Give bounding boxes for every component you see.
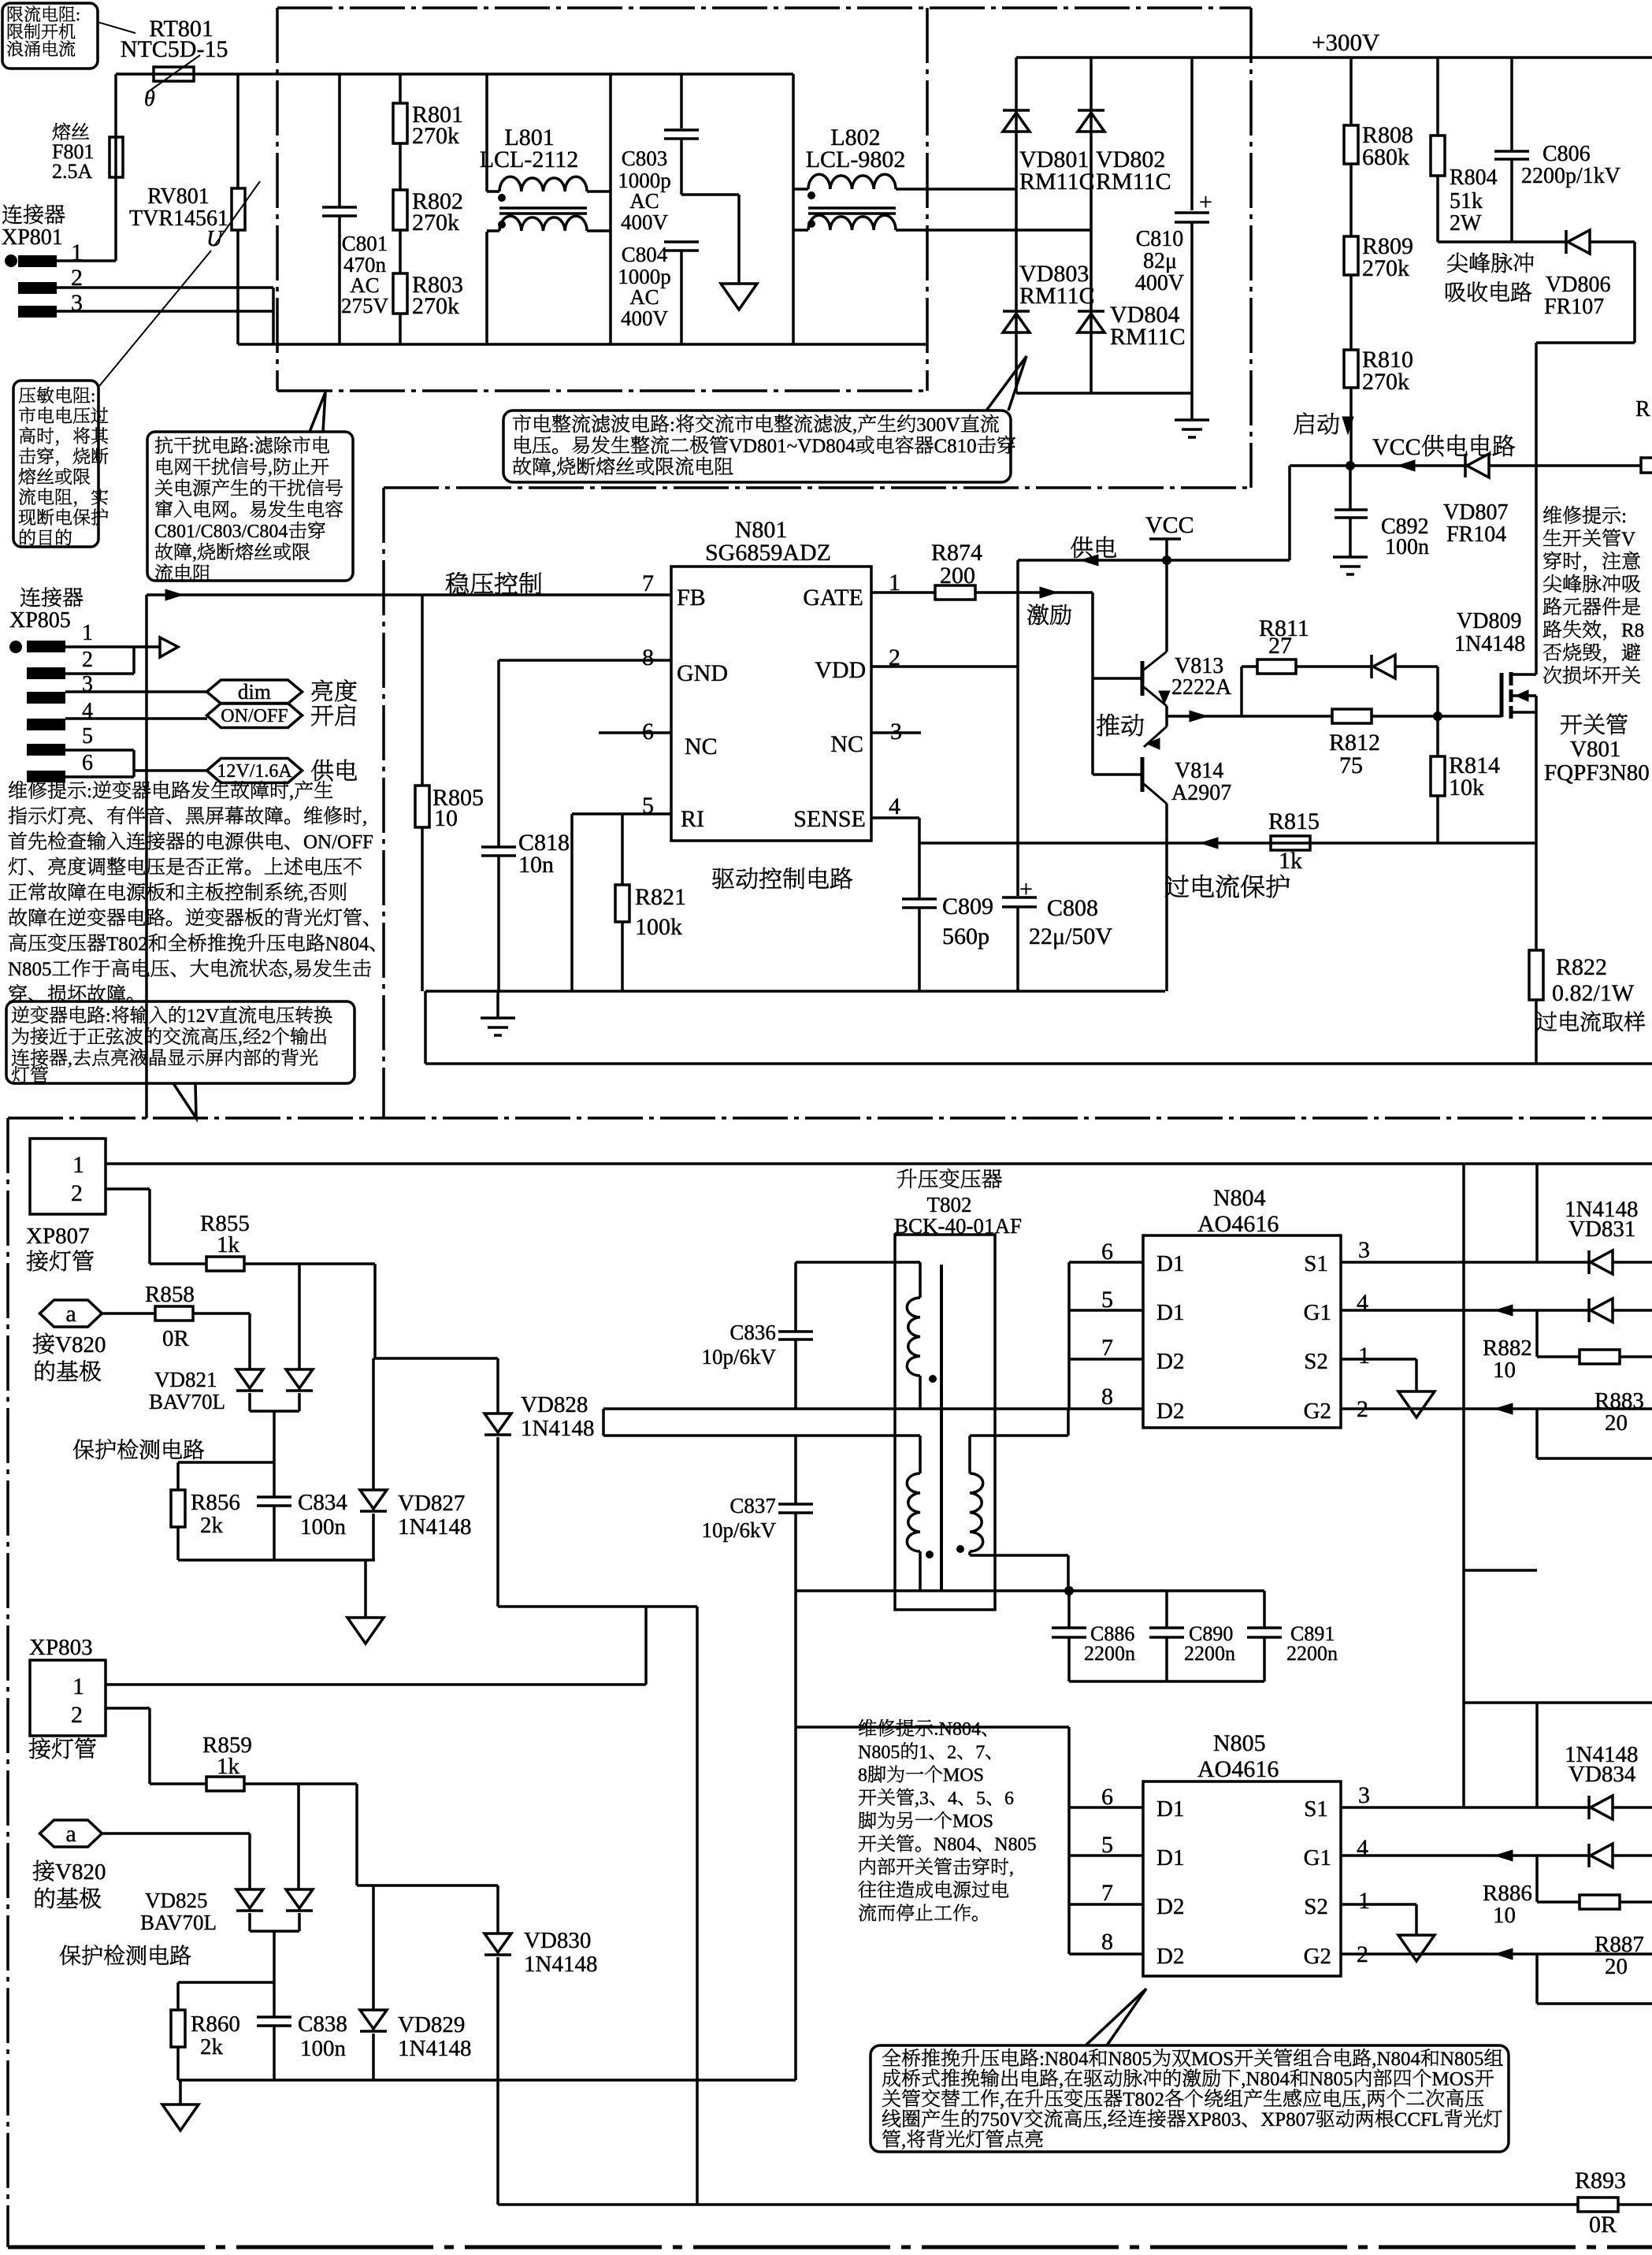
svg-text:10: 10 [434,805,458,831]
svg-text:R815: R815 [1268,808,1320,834]
svg-text:1: 1 [1358,1343,1370,1369]
svg-text:N804: N804 [1213,1185,1266,1211]
node L801 dot top [498,194,506,202]
svg-text:,: , [192,543,197,563]
svg-text:R893: R893 [1575,2168,1626,2194]
node L802 dot top [807,191,815,199]
label 保护检测电路 upper [73,1440,94,1459]
svg-text:0.82/1W: 0.82/1W [1552,980,1635,1006]
label 过电流保护 [1165,875,1189,897]
svg-text:100n: 100n [300,1514,347,1540]
svg-text:1N4148: 1N4148 [1454,632,1525,656]
wire pin3 [65,690,207,693]
svg-text:VD829: VD829 [398,2012,465,2038]
ground (triangle) S2 [1398,1391,1435,1417]
svg-text:S2: S2 [1304,1894,1328,1919]
wire VCC supply to IC [1018,559,1290,562]
svg-text:2.5A: 2.5A [52,160,93,183]
svg-text:R821: R821 [635,884,686,910]
svg-text:10: 10 [1493,1358,1516,1383]
svg-text::: : [670,414,675,436]
wire R860/C838 top [178,1981,274,1984]
node VCC dot [1162,555,1171,565]
wire section border EMI right (dash-dot) [926,8,929,391]
svg-text:G1: G1 [1304,1300,1331,1325]
wire section border mid horizontal (dash-dot) [384,486,1251,489]
op-amp N804 AO4616 box [1143,1235,1341,1428]
svg-text:AO4616: AO4616 [1197,1756,1279,1782]
svg-text:0R: 0R [162,1326,190,1351]
svg-text:D2: D2 [1156,1349,1184,1374]
svg-text:3: 3 [1358,1782,1370,1808]
wire G2 line n805 [1341,1952,1652,1956]
svg-text:VD834: VD834 [1568,1762,1636,1787]
connector XP807 box [30,1139,106,1214]
wire XP807 pin1 line [106,1162,1652,1165]
flag 12V/1.6A [207,759,303,783]
svg-text::: : [106,1006,111,1027]
resistor R802 [399,143,402,190]
diode VD834b [1587,1844,1591,1867]
wire XP801 pin1 [57,259,116,262]
svg-text:V814: V814 [1175,759,1223,783]
resistor R860 [176,1982,180,2010]
svg-text:20: 20 [1605,1410,1628,1436]
svg-text:D2: D2 [1156,1399,1184,1424]
svg-text:1: 1 [82,621,93,645]
svg-text:,: , [289,781,294,802]
connector XP805 pin2 [27,667,65,679]
svg-text:5: 5 [976,1789,986,1809]
note text: repair tip left [9,781,27,799]
svg-text:XP801: XP801 [2,225,63,250]
label T802 [897,1169,917,1188]
ground (earth) C892 [1333,555,1368,559]
svg-text:10: 10 [1493,1903,1516,1928]
svg-text:RM11C: RM11C [1110,324,1186,350]
wire VDD to VCC [1016,560,1019,896]
diode VD834a [1587,1796,1591,1819]
wire section border right (dash-dot) [1249,8,1253,488]
svg-text:VD825: VD825 [145,1889,208,1912]
svg-text:27: 27 [1268,633,1292,659]
wire pins1-2 merge [65,645,160,648]
svg-text:NTC5D-15: NTC5D-15 [121,36,228,62]
svg-text:4: 4 [1357,1290,1368,1316]
svg-text::N804: :N804 [1039,2049,1089,2070]
wire secondary top link [970,1434,1068,1437]
node L802 dot bottom [807,220,815,228]
diode VD809 [1370,655,1373,678]
svg-text:1k: 1k [217,1754,240,1779]
svg-text:,: , [1000,2089,1004,2110]
wire XP801 pin2 [57,286,273,289]
wire VD827 chain [373,1357,498,1360]
svg-text:1N4148: 1N4148 [521,1416,594,1441]
svg-text:C803: C803 [622,147,668,170]
wire VD828 down [496,1437,499,1607]
flag a (lower) [40,1820,102,1847]
svg-text:2: 2 [82,648,93,672]
wire VD829 to rail [372,2034,375,2080]
svg-text:VD806: VD806 [1546,273,1610,297]
svg-text:D1: D1 [1156,1300,1184,1325]
resistor R805 [421,595,424,786]
svg-text:2200n: 2200n [1184,1642,1235,1665]
svg-text:3: 3 [1358,1237,1370,1263]
svg-text:,: , [1361,2089,1366,2110]
diode VD831b [1587,1298,1591,1322]
svg-text:VD831: VD831 [1568,1217,1635,1242]
resistor R821 [621,814,624,885]
svg-text:,3: ,3 [915,1789,929,1809]
node T802 dot primary2 [926,1551,934,1558]
label 开启 [311,705,333,726]
label 接V820 lower [33,1860,54,1882]
wire caps top rail [1213,1589,1264,1592]
wire output bottom [796,1589,1213,1592]
ground (triangle) [721,284,757,310]
svg-text:300V: 300V [916,414,960,436]
connector XP801 pin 1 [5,254,17,267]
svg-text:75: 75 [1339,752,1363,778]
svg-text:275V: 275V [341,294,389,318]
wire V801 source [1535,696,1538,843]
node T802 dot secondary [956,1545,964,1553]
svg-text:R856: R856 [191,1490,240,1515]
svg-text:5: 5 [1101,1287,1113,1313]
wire VD829 chain [372,1885,375,2010]
svg-text:270k: 270k [412,210,459,236]
svg-text:1k: 1k [1279,848,1302,874]
resistor R893 [1578,2197,1618,2212]
resistor R809 [1349,164,1353,236]
resistor R811 [1240,667,1243,716]
resistor R887 line [1535,1954,1539,2004]
note text: repair tip right [1543,506,1561,524]
svg-text:12V: 12V [187,1006,220,1027]
svg-text:N805: N805 [1309,2069,1353,2090]
svg-text::: : [1621,506,1627,527]
diode VD804 [1078,310,1104,313]
svg-text:,: , [551,457,556,478]
capacitor C886 [1067,1591,1071,1628]
transistor Q1 V813 2222A [1165,560,1168,652]
svg-text:,N804: ,N804 [1241,2069,1290,2090]
wire RI pin5 [572,812,671,815]
label 启动 [1294,413,1314,434]
wire XP803 pin1 line [106,1683,646,1686]
wire to XP803 pin1 [644,1607,648,1685]
svg-text:N805: N805 [8,959,52,980]
wire VD807 anode [1489,464,1641,467]
capacitor C836 [794,1262,797,1332]
svg-text:,: , [1009,1858,1014,1878]
resistor (cropped right) [1641,458,1652,473]
node arrow right [160,637,178,657]
svg-text::: : [249,437,254,457]
flag ON/OFF [207,704,303,728]
svg-text:R804: R804 [1450,165,1498,190]
svg-text:,: , [68,1049,72,1069]
thermistor RT801 [154,67,194,81]
svg-text:2: 2 [947,1742,956,1763]
svg-text:XP803: XP803 [1186,2109,1241,2131]
svg-text:400V: 400V [1135,271,1184,295]
flag dim [207,680,303,704]
wire C837 to lower [794,1591,797,2080]
svg-text:1: 1 [1358,1888,1370,1914]
svg-text:N805: N805 [1108,2049,1153,2070]
svg-text:RM11C: RM11C [1019,169,1095,195]
wire IC ground rail [425,990,1165,993]
svg-text:R822: R822 [1556,954,1607,980]
svg-text:+300V: +300V [1312,28,1380,56]
svg-text:C837: C837 [729,1494,776,1518]
svg-text:,: , [362,806,367,827]
svg-text:XP805: XP805 [9,608,71,633]
svg-text:a: a [65,1301,76,1327]
label 尖峰脉冲吸收电路 [1447,253,1468,273]
svg-text:N805: N805 [1440,2049,1484,2070]
label 稳压控制 [446,572,469,594]
wire snubber bottom [1438,240,1566,243]
svg-text:S1: S1 [1304,1251,1328,1276]
wire pins5-6 merge [65,749,134,752]
note box: full bridge push-pull [871,2045,1509,2152]
transistor Q2 V814 A2907 [1144,726,1167,747]
node T802 dot primary1 [929,1375,937,1383]
svg-text:100n: 100n [1385,535,1429,559]
svg-text:2200n: 2200n [1286,1642,1338,1665]
wire NC pin3 stub [871,731,921,734]
svg-text:,: , [1103,2109,1108,2131]
svg-text:FR104: FR104 [1446,522,1506,547]
transformer T802 box [895,1235,995,1610]
connector XP801 pin 3 [18,306,57,318]
svg-text:VD827: VD827 [398,1491,465,1516]
svg-text:270k: 270k [412,293,459,319]
wire XP807 pin2 [106,1187,150,1191]
svg-text:N805: N805 [858,1742,900,1763]
svg-text:2k: 2k [200,1513,224,1538]
svg-text:270k: 270k [1362,255,1409,281]
svg-text:7: 7 [1101,1880,1113,1906]
wire SENSE pin4 [871,816,919,819]
wire VCC supply line [1290,464,1465,467]
resistor R803 [399,230,402,273]
svg-text:,: , [238,1027,243,1048]
label 过电流取样 [1536,1012,1557,1031]
resistor R859 [150,1782,206,1785]
svg-text:V801: V801 [1570,737,1620,762]
capacitor C810 electrolytic [1175,211,1209,214]
svg-text:82μ: 82μ [1143,249,1177,273]
wire V814 base [1093,773,1142,776]
varistor RV801 [236,74,239,188]
wire winding sense B [603,1434,920,1437]
svg-text::: : [91,386,95,406]
wire V801 drain [1535,343,1538,674]
wire callout varistor [99,251,211,386]
svg-text:1k: 1k [217,1232,240,1258]
wire sub box top n805 [1464,1701,1652,1704]
svg-text:VD830: VD830 [524,1928,591,1953]
wire V813 base [1093,677,1142,680]
svg-text:XP807: XP807 [1260,2109,1315,2131]
wire section border left upper (dash-dot) [276,8,279,391]
diode VD830 [496,1885,499,1934]
svg-text:6: 6 [1101,1784,1113,1810]
wire VD809 to gate node [1395,665,1438,668]
node VCC junction [1346,461,1355,470]
svg-text:U: U [206,227,224,251]
svg-text:6: 6 [82,751,93,775]
svg-text:R860: R860 [191,2012,240,2037]
svg-text:6: 6 [1004,1789,1014,1809]
wire R855 to VD821 [298,1264,301,1369]
transistor V801 MOSFET FQPF3N80 [1500,673,1504,717]
svg-text:MOS: MOS [943,1766,984,1786]
svg-text:V820: V820 [55,1859,106,1885]
wire a to VD825 [102,1832,250,1835]
svg-text:R8: R8 [1621,620,1644,641]
svg-text:G1: G1 [1304,1845,1331,1870]
svg-text:,: , [1059,2069,1064,2090]
capacitor C818 [497,660,500,847]
svg-text:RI: RI [681,806,704,832]
svg-text:a: a [65,1821,76,1847]
wire section border mid vertical (dash-dot) [382,488,385,1118]
resistor R886 [1535,1856,1539,1902]
wire sub box left [1535,1164,1539,1262]
svg-text:NC: NC [830,731,863,757]
svg-text:,: , [901,2130,906,2151]
svg-text:VDD: VDD [815,657,866,683]
connector XP805 pin1 [9,641,22,653]
svg-text:R: R [1635,397,1650,422]
svg-text:G2: G2 [1304,1399,1331,1424]
svg-text:270k: 270k [412,123,459,149]
svg-text:C806: C806 [1542,142,1591,166]
wire pin8 [1069,1407,1143,1410]
capacitor C804 [664,240,699,243]
resistor R855 [150,1262,206,1265]
svg-text:ON/OFF: ON/OFF [221,706,288,726]
ground (triangle) upper [364,1560,367,1618]
label 保护检测电路 lower [60,1945,80,1965]
wire protect rail lower [178,2079,796,2082]
wire R858 to VD821 [248,1313,251,1369]
capacitor C891 [1263,1591,1266,1628]
svg-text:VD821: VD821 [154,1368,217,1391]
wire sub box bottom [1464,1569,1537,1572]
svg-text:N805: N805 [994,1835,1036,1856]
diode VD828 [496,1358,499,1414]
wire pin7 [1069,1358,1143,1361]
wire overcurrent sense line [919,841,1536,845]
svg-text:7: 7 [1101,1335,1113,1361]
svg-text:LCL-9802: LCL-9802 [806,147,906,173]
capacitor C806 [1510,58,1513,151]
wire pin5 [1069,1854,1143,1857]
svg-text:8: 8 [858,1766,867,1786]
wire VD806 to drain [1590,240,1635,243]
svg-text:R858: R858 [145,1282,195,1307]
svg-text:G2: G2 [1304,1944,1331,1969]
node gate drive [1433,711,1442,721]
svg-text:4: 4 [948,1789,957,1809]
wire section border top (dash-dot) [277,6,1251,9]
svg-text:D1: D1 [1156,1845,1184,1870]
svg-text:1: 1 [919,1742,928,1763]
svg-text:100k: 100k [635,914,682,940]
wire VD821 join [248,1393,251,1411]
svg-text:10p/6kV: 10p/6kV [702,1345,777,1369]
svg-text:1: 1 [72,1674,84,1700]
svg-text:XP807: XP807 [26,1224,90,1249]
wire pin4 [65,717,207,720]
svg-text:,: , [288,959,293,980]
diode VD829 [360,2010,387,2029]
svg-text:680k: 680k [1362,144,1409,170]
wire V814 collector to ground rail [1165,804,1168,991]
resistor R858 [102,1312,155,1315]
svg-text:2k: 2k [200,2034,224,2060]
resistor R883 line [1535,1409,1539,1458]
resistor R815 [1271,836,1310,850]
svg-text:2: 2 [71,1702,83,1728]
svg-text:C804: C804 [622,243,668,266]
label 接灯管 lower [29,1738,50,1759]
svg-text:RV801: RV801 [147,184,210,209]
wire bottom rail L [238,343,926,346]
svg-text:SG6859ADZ: SG6859ADZ [705,540,831,566]
label connector XP801 [2,205,22,224]
capacitor C809 [918,843,921,899]
svg-text:2: 2 [71,1180,83,1206]
svg-text:BAV70L: BAV70L [140,1911,217,1934]
wire C803 box [609,74,612,344]
svg-text:VCC: VCC [1145,512,1194,538]
svg-text:C810: C810 [934,436,977,457]
svg-text:100n: 100n [300,2036,347,2061]
resistor R810 [1349,275,1353,350]
node junction [1064,1586,1074,1596]
wire sub box top [1462,1164,1465,1807]
wire XP801 pin3 [57,310,273,313]
flag a (upper) [40,1300,102,1327]
svg-text:MOS: MOS [1191,2049,1234,2070]
wire XP803 pin2 [106,1707,150,1710]
svg-text:AC: AC [629,189,659,213]
svg-text:VD828: VD828 [521,1392,588,1417]
wire GND pin8 [499,659,671,662]
svg-text:51k: 51k [1450,189,1483,214]
wire C810 to ground [1190,393,1194,420]
resistor R801 [399,74,402,103]
wire primary1 top [796,1261,920,1264]
svg-text:V: V [1621,529,1635,550]
wire N804 pin bus [1067,1262,1071,1409]
svg-text:FR107: FR107 [1544,295,1604,319]
svg-text:S1: S1 [1304,1796,1328,1822]
wire VD830 down [496,1957,499,2205]
inductor T802 secondary [968,1436,971,1473]
svg-text:GND: GND [677,660,728,686]
wire RI drop [570,814,574,991]
resistor R814 [1436,716,1439,756]
